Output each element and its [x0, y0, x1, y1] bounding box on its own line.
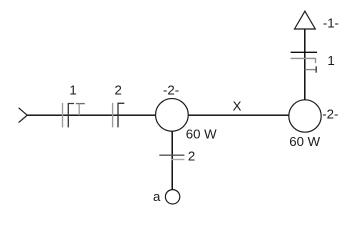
svg-text:-2-: -2-	[163, 83, 179, 98]
svg-text:2: 2	[114, 83, 121, 98]
svg-text:60 W: 60 W	[289, 134, 320, 149]
svg-text:1: 1	[69, 82, 76, 97]
svg-text:2: 2	[188, 148, 195, 163]
svg-text:X: X	[233, 99, 242, 114]
svg-text:1: 1	[327, 53, 334, 68]
svg-text:a: a	[153, 189, 161, 204]
svg-text:60 W: 60 W	[186, 126, 217, 141]
svg-text:-1-: -1-	[323, 16, 339, 31]
svg-text:-2-: -2-	[322, 107, 338, 122]
